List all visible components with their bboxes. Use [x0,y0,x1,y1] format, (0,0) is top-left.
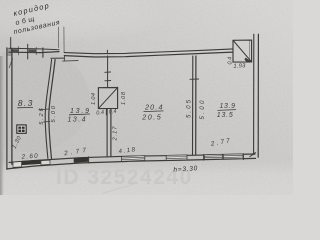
svg-text:1.93: 1.93 [233,63,246,70]
window dark 8.3 [22,160,41,165]
vent square diagonal [99,88,118,109]
corner diagonal bottom right [250,153,256,157]
underline 8.3 [17,106,33,108]
paper light patch top-left [0,0,1,1]
window W1 [122,156,145,162]
svg-text:5.00: 5.00 [51,105,57,122]
wall left outer [6,48,8,170]
svg-text:0.4: 0.4 [108,109,117,116]
jamb tick W4 right [242,154,244,160]
vent partition upper [107,56,109,88]
tick vent b [105,80,111,82]
wall hatch fill right [29,49,37,53]
tick t2 [35,47,37,54]
partition 20.4/13.9 right line [195,56,197,155]
window hatch 8.3b [41,160,50,165]
tick door jamb 8.3 [27,44,29,59]
svg-text:0.4: 0.4 [96,110,105,117]
crease line bottom [102,184,134,194]
door leaf 8.3 [9,59,12,68]
scan dark left edge [0,56,4,195]
wall top inner line right [64,52,233,57]
wall bottom upper line [9,154,255,162]
window W3 [204,154,222,159]
window hatch left [13,162,22,168]
wall jog connector [63,55,65,61]
window W2 [166,155,187,160]
paper light strip bottom [0,160,293,195]
svg-text:13.5: 13.5 [217,112,233,119]
tick t1 [18,47,20,55]
wall top outer line left [9,48,59,50]
wall left stub top [10,38,12,49]
entrance jamb left [57,27,59,48]
tick t3 [42,48,44,57]
svg-text:2.17: 2.17 [112,126,118,142]
partition 8.3/13.9 left line [45,60,51,159]
jamb tick w-dark [88,157,90,163]
svg-text:13.4: 13.4 [68,116,86,123]
partition 8.3/13.9 right line [49,60,55,159]
fraction bar 1 [69,113,90,116]
svg-text:5.26: 5.26 [39,108,45,125]
balcony corner blob [245,58,252,63]
tick vent a [105,71,111,73]
partition 20.4/13.9 left line [192,56,194,155]
svg-text:2.60: 2.60 [20,153,38,161]
wall right inner [253,34,255,154]
paper grain [0,0,293,195]
wall right outer [257,34,259,157]
wall below vent left [106,109,108,157]
svg-text:1.04: 1.04 [91,93,97,105]
balcony square [233,40,252,62]
fraction bar 3 [218,109,237,112]
wall hatch fill left [11,49,19,53]
wall left inner [11,49,13,165]
svg-text:20.5: 20.5 [141,112,162,121]
svg-text:5.05: 5.05 [187,99,193,118]
svg-text:8.3: 8.3 [18,98,33,108]
svg-text:13.9: 13.9 [220,103,236,110]
paper dark patch mid-left [0,48,90,152]
tick partition upper [39,108,50,111]
wall jog lower [63,60,78,63]
vent partition stub above wall [106,50,108,53]
jamb tick W3 left [203,155,205,161]
vent square [98,88,117,109]
window W4 [223,154,243,159]
wall jog upper [51,57,65,59]
fraction bar 2 [144,110,164,113]
tick under vent [105,109,107,115]
tick partition 20.4 [190,78,199,80]
balcony inner vertical [249,41,251,62]
balcony diagonal [233,41,251,62]
tick partition lower [43,121,49,124]
wall top outer line right [64,49,233,54]
svg-text:5.00: 5.00 [200,100,206,120]
window dark 13.9 [74,157,89,163]
wall below vent right [110,109,112,157]
svg-text:20.4: 20.4 [144,103,163,112]
wall top inner line left [9,52,59,53]
wall left top fill [7,48,12,56]
entrance jamb right [63,27,65,53]
wall bottom lower line [7,158,256,169]
paper background [0,0,293,195]
stamp box [17,125,26,133]
svg-text:1.08: 1.08 [121,91,127,105]
